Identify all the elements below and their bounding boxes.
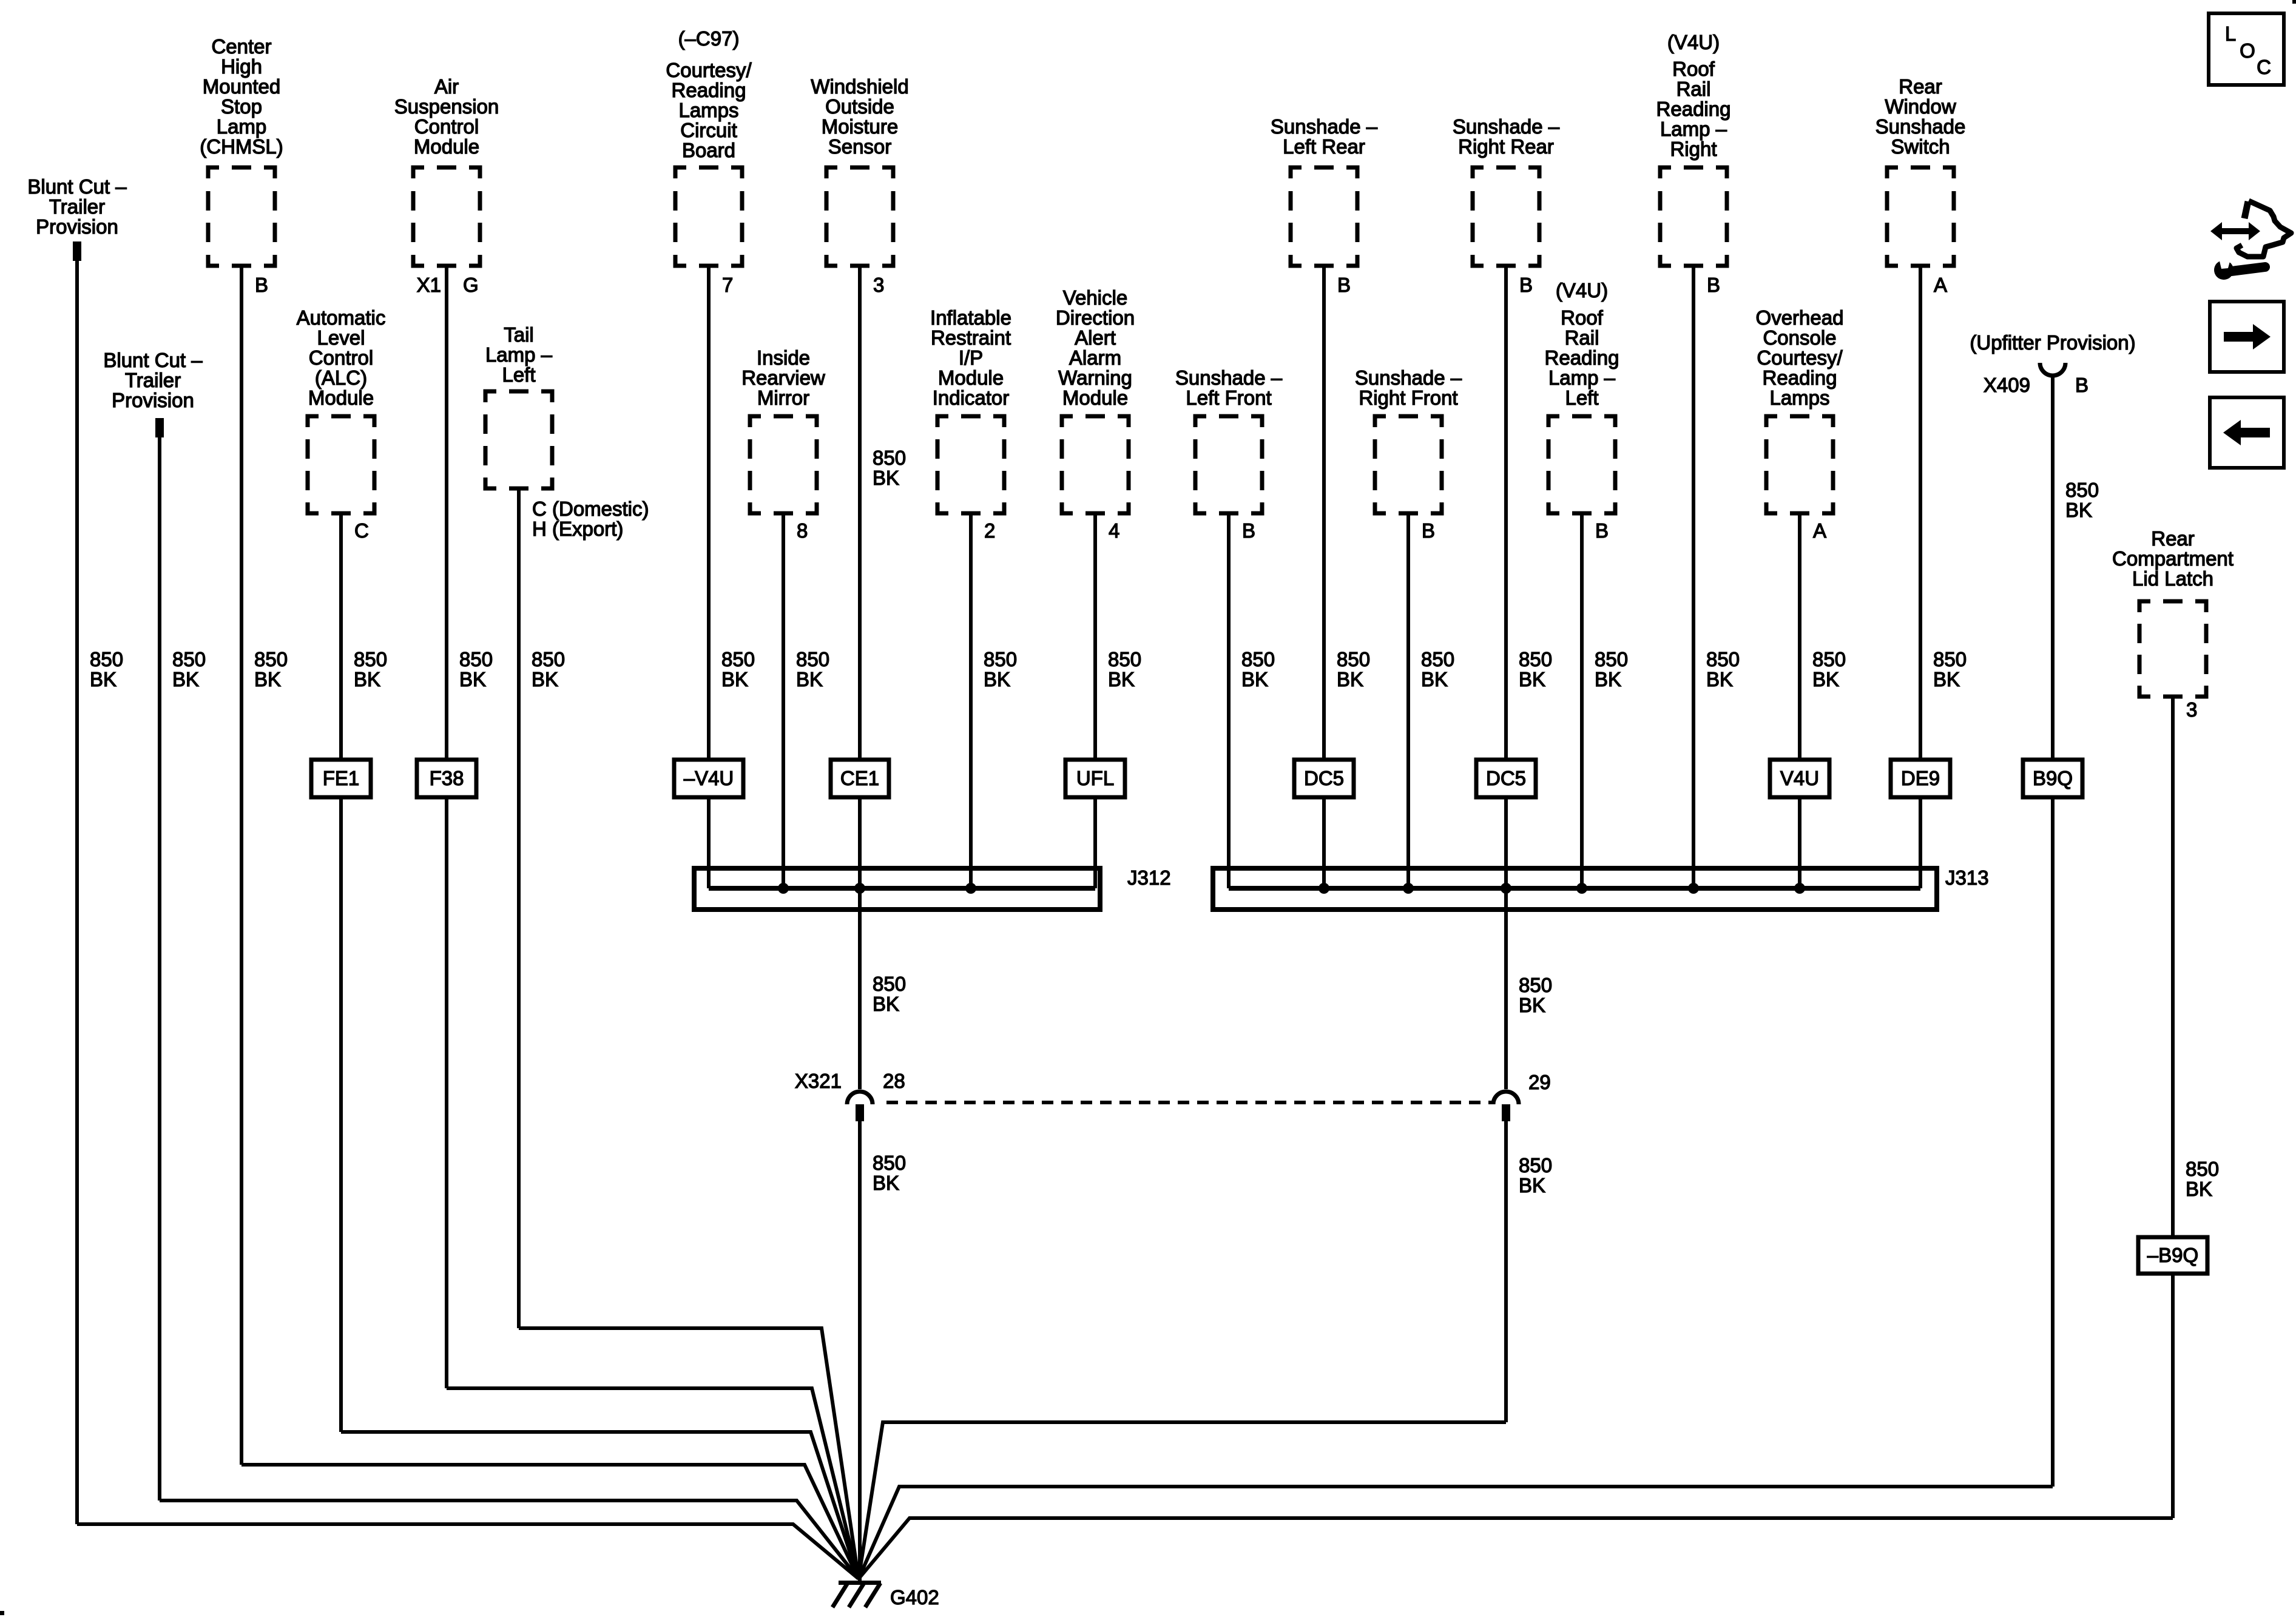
- svg-text:850: 850: [1706, 648, 1740, 670]
- svg-text:Rearview: Rearview: [741, 366, 825, 389]
- svg-text:Level: Level: [317, 326, 365, 349]
- wire sunshade switch down to DE9: [1919, 264, 1922, 760]
- svg-text:Windshield: Windshield: [811, 75, 908, 98]
- svg-text:Trailer: Trailer: [125, 369, 181, 391]
- wire run connector-29 to ground: [859, 1422, 1506, 1579]
- wire vehicle direction down to UFL: [1093, 511, 1097, 760]
- svg-text:(CHMSL): (CHMSL): [200, 135, 283, 158]
- svg-text:BK: BK: [873, 467, 899, 489]
- svg-text:L: L: [2225, 22, 2236, 45]
- label Center High Mounted Stop Lamp (CHMSL): [200, 35, 283, 158]
- svg-text:Lid Latch: Lid Latch: [2132, 567, 2213, 590]
- svg-text:BK: BK: [1241, 668, 1268, 690]
- junction dot (sunshade RF): [1403, 883, 1414, 894]
- junction dot (moisture sensor): [854, 883, 865, 894]
- svg-text:(ALC): (ALC): [315, 366, 367, 389]
- svg-text:Provision: Provision: [112, 389, 194, 411]
- svg-text:Overhead: Overhead: [1756, 306, 1844, 329]
- svg-text:Restraint: Restraint: [931, 326, 1011, 349]
- wire label 850 BK (inflatable restraint): [984, 648, 1017, 690]
- wire label 850 BK (sunshade switch): [1933, 648, 1967, 690]
- option box -B9Q: [2138, 1237, 2207, 1274]
- svg-text:Reading: Reading: [1763, 366, 1837, 389]
- svg-text:850: 850: [873, 973, 906, 995]
- svg-text:BK: BK: [1337, 668, 1363, 690]
- pin B (sunshade right rear): [1519, 274, 1533, 296]
- option box V4U: [1770, 760, 1829, 797]
- option box B9Q: [2023, 760, 2082, 797]
- svg-text:Air: Air: [434, 75, 459, 98]
- svg-text:BK: BK: [984, 668, 1010, 690]
- component ALC Module (dashed box): [308, 416, 374, 513]
- wire label 850 BK (air suspension): [459, 648, 493, 690]
- wire ALC down to FE1: [339, 511, 343, 760]
- svg-text:Automatic: Automatic: [297, 306, 386, 329]
- wire label 850 BK (sunshade RF): [1421, 648, 1454, 690]
- svg-text:Lamp: Lamp: [217, 115, 267, 138]
- svg-text:Right Rear: Right Rear: [1458, 135, 1554, 158]
- svg-text:(V4U): (V4U): [1556, 279, 1608, 302]
- svg-text:29: 29: [1528, 1071, 1551, 1093]
- component Air Suspension Control Module (dashed box): [413, 167, 480, 266]
- svg-text:BK: BK: [1812, 668, 1839, 690]
- svg-text:X1: X1: [417, 274, 441, 296]
- svg-text:B: B: [1707, 274, 1720, 296]
- pin C (Domestic) / H (Export): [532, 498, 649, 540]
- wire moisture sensor down to CE1: [858, 264, 862, 760]
- svg-text:Sunshade: Sunshade: [1876, 115, 1966, 138]
- svg-text:Left Front: Left Front: [1186, 387, 1271, 409]
- component Roof Rail Reading Lamp Right (dashed box): [1660, 167, 1727, 266]
- svg-text:(Upfitter Provision): (Upfitter Provision): [1970, 331, 2135, 354]
- wire F38 down: [445, 797, 448, 1388]
- svg-text:850: 850: [2186, 1158, 2219, 1180]
- svg-text:BK: BK: [873, 993, 899, 1015]
- wire sunshade left front to J313: [1227, 511, 1231, 888]
- wire roof rail left to J313: [1580, 511, 1584, 888]
- svg-text:Mirror: Mirror: [757, 387, 809, 409]
- wire roof rail right to J313: [1692, 264, 1695, 888]
- svg-text:Vehicle: Vehicle: [1063, 286, 1127, 309]
- wire run ALC to ground: [341, 1432, 859, 1579]
- component Rear Window Sunshade Switch (dashed box): [1887, 167, 1954, 266]
- pin A (sunshade switch): [1934, 274, 1947, 296]
- svg-text:BK: BK: [1108, 668, 1135, 690]
- svg-text:Courtesy/: Courtesy/: [1757, 346, 1843, 369]
- svg-text:O: O: [2240, 39, 2255, 62]
- svg-text:A: A: [1813, 519, 1826, 542]
- svg-text:850: 850: [1595, 648, 1628, 670]
- svg-text:Lamps: Lamps: [1769, 387, 1829, 409]
- wire label 850 BK (upfitter): [2065, 479, 2099, 521]
- svg-text:J313: J313: [1945, 866, 1989, 889]
- svg-text:G402: G402: [890, 1586, 939, 1609]
- svg-text:Outside: Outside: [825, 95, 894, 118]
- component Sunshade Left Front (dashed box): [1195, 416, 1262, 513]
- svg-text:F38: F38: [430, 767, 464, 789]
- component Sunshade Right Front (dashed box): [1375, 416, 1442, 513]
- wire label 850 BK (J312 exit upper): [873, 973, 906, 1015]
- legend body-repair icon (double arrow): [2210, 222, 2260, 240]
- svg-text:Sunshade –: Sunshade –: [1271, 115, 1378, 138]
- svg-text:850: 850: [1519, 974, 1552, 996]
- junction dot (sunshade RR): [1501, 883, 1511, 894]
- svg-text:850: 850: [532, 648, 565, 670]
- corner mark bottom-left: [0, 1611, 4, 1615]
- wire label 850 BK (CHMSL): [254, 648, 288, 690]
- svg-text:DC5: DC5: [1486, 767, 1526, 789]
- svg-text:Rear: Rear: [1899, 75, 1942, 98]
- svg-text:28: 28: [883, 1070, 905, 1092]
- in-line connector dashed link 28-29: [886, 1101, 1491, 1104]
- svg-text:BK: BK: [254, 668, 281, 690]
- svg-text:850: 850: [254, 648, 288, 670]
- wire J312 to connector 28: [858, 888, 862, 1089]
- svg-text:Courtesy/: Courtesy/: [666, 59, 752, 81]
- wire sunshade left rear down to DC5: [1322, 264, 1326, 760]
- svg-text:Stop: Stop: [221, 95, 262, 118]
- wire overhead console down to V4U: [1798, 511, 1801, 760]
- blunt-cut terminal (second trailer provision): [155, 418, 164, 437]
- svg-text:Tail: Tail: [504, 323, 534, 346]
- svg-text:850: 850: [90, 648, 123, 670]
- svg-text:850: 850: [873, 1152, 906, 1174]
- wire label 850 BK (blunt cut 2): [172, 648, 206, 690]
- legend LOC box: [2209, 13, 2284, 85]
- label (V4U) Roof Rail Reading Lamp - Left: [1545, 279, 1619, 409]
- wire courtesy down to -V4U: [707, 264, 711, 760]
- svg-text:B: B: [2075, 374, 2088, 396]
- svg-text:BK: BK: [2065, 499, 2092, 521]
- label (V4U) Roof Rail Reading Lamp - Right: [1656, 31, 1731, 160]
- svg-text:BK: BK: [1519, 1174, 1545, 1197]
- svg-text:BK: BK: [90, 668, 116, 690]
- svg-text:B: B: [1242, 519, 1255, 542]
- svg-text:Alert: Alert: [1075, 326, 1116, 349]
- pin X1 / G (air suspension): [417, 274, 479, 296]
- svg-text:Blunt Cut –: Blunt Cut –: [27, 175, 127, 198]
- corner mark top-right: [2292, 0, 2296, 4]
- svg-text:Right Front: Right Front: [1359, 387, 1457, 409]
- svg-text:3: 3: [873, 274, 884, 296]
- svg-text:Switch: Switch: [1891, 135, 1950, 158]
- svg-text:850: 850: [1421, 648, 1454, 670]
- svg-text:Board: Board: [682, 139, 735, 161]
- label Overhead Console Courtesy/Reading Lamps: [1756, 306, 1844, 409]
- junction block J312 (outer): [694, 868, 1100, 910]
- component CHMSL (dashed box): [208, 167, 275, 266]
- label Rear Compartment Lid Latch: [2112, 527, 2234, 590]
- svg-text:V4U: V4U: [1780, 767, 1819, 789]
- svg-text:850: 850: [172, 648, 206, 670]
- wire 29 down: [1504, 1121, 1508, 1422]
- svg-text:Left Rear: Left Rear: [1283, 135, 1365, 158]
- wire run blunt-cut1 to ground: [77, 1524, 859, 1579]
- svg-text:Reading: Reading: [1656, 98, 1731, 120]
- svg-text:BK: BK: [1519, 668, 1545, 690]
- svg-text:BK: BK: [1595, 668, 1621, 690]
- label Automatic Level Control (ALC) Module: [297, 306, 386, 409]
- wire FE1 down: [339, 797, 343, 1432]
- pin 3 (moisture sensor): [873, 274, 884, 296]
- svg-text:4: 4: [1109, 519, 1119, 542]
- svg-text:Sunshade –: Sunshade –: [1453, 115, 1560, 138]
- fuse box F38: [417, 760, 476, 797]
- label J312: [1127, 866, 1171, 889]
- svg-text:Rail: Rail: [1565, 326, 1599, 349]
- junction block J313 (outer): [1213, 868, 1937, 910]
- pin B (sunshade right front): [1422, 519, 1435, 542]
- svg-text:8: 8: [797, 519, 808, 542]
- wire label 850 BK (moisture sensor): [873, 447, 906, 489]
- svg-text:Roof: Roof: [1672, 58, 1715, 80]
- svg-text:Direction: Direction: [1056, 306, 1135, 329]
- wire label 850 BK (J313 exit upper): [1519, 974, 1552, 1016]
- wire DC5 left rear to J313: [1322, 797, 1326, 888]
- svg-text:850: 850: [984, 648, 1017, 670]
- label Sunshade - Left Front: [1175, 366, 1283, 409]
- svg-text:G: G: [463, 274, 479, 296]
- component Windshield Outside Moisture Sensor (dashed box): [826, 167, 893, 266]
- component Rear Compartment Lid Latch (dashed box): [2139, 601, 2206, 697]
- wire label 850 BK (ALC): [354, 648, 387, 690]
- svg-text:A: A: [1934, 274, 1947, 296]
- wire label 850 BK (lid latch): [2186, 1158, 2219, 1200]
- svg-text:B: B: [1519, 274, 1533, 296]
- wire lid latch down to -B9Q: [2171, 695, 2175, 1237]
- wire run tail-lamp to ground: [519, 1328, 859, 1579]
- component Courtesy/Reading Lamps Circuit Board (dashed box): [675, 167, 742, 266]
- svg-text:850: 850: [354, 648, 387, 670]
- component Overhead Console Courtesy/Reading Lamps (dashed box): [1766, 416, 1833, 513]
- label Sunshade - Left Rear: [1271, 115, 1378, 158]
- svg-text:BK: BK: [1933, 668, 1960, 690]
- legend body-repair icon (panel outline): [2237, 201, 2291, 257]
- label X321: [795, 1070, 842, 1092]
- label Air Suspension Control Module: [394, 75, 499, 158]
- wire label 850 BK (vehicle direction): [1108, 648, 1141, 690]
- svg-text:C: C: [354, 519, 369, 542]
- svg-text:Control: Control: [309, 346, 373, 369]
- pin C (ALC): [354, 519, 369, 542]
- svg-text:X321: X321: [795, 1070, 842, 1092]
- junction dot (roof rail right): [1688, 883, 1699, 894]
- connector X409 (upfitter): [2040, 363, 2065, 376]
- svg-text:B: B: [1422, 519, 1435, 542]
- svg-text:850: 850: [721, 648, 755, 670]
- svg-text:Window: Window: [1885, 95, 1956, 118]
- svg-text:BK: BK: [873, 1172, 899, 1194]
- legend body-repair icon (wrench): [2214, 255, 2265, 280]
- component Roof Rail Reading Lamp Left (dashed box): [1548, 416, 1615, 513]
- pin 2 (inflatable restraint): [984, 519, 995, 542]
- wire DE9 to J313: [1919, 797, 1922, 888]
- svg-text:High: High: [221, 55, 262, 78]
- svg-text:(V4U): (V4U): [1667, 31, 1720, 53]
- svg-text:Center: Center: [211, 35, 271, 58]
- svg-text:B9Q: B9Q: [2033, 767, 2073, 789]
- connector X321 pin 29: [1493, 1092, 1519, 1121]
- ground G402 symbol: [832, 1581, 881, 1607]
- svg-text:Lamp –: Lamp –: [485, 343, 553, 366]
- wire label 850 BK (roof rail left): [1595, 648, 1628, 690]
- svg-text:Lamps: Lamps: [678, 99, 738, 121]
- svg-text:850: 850: [2065, 479, 2099, 501]
- svg-text:Roof: Roof: [1561, 306, 1604, 329]
- wire V4U to J313: [1798, 797, 1801, 888]
- wire run upfitter to ground: [859, 1487, 2053, 1579]
- wire inflatable restraint to J312: [969, 511, 973, 888]
- svg-text:Suspension: Suspension: [394, 95, 499, 118]
- svg-text:Lamp –: Lamp –: [1548, 366, 1616, 389]
- label G402: [890, 1586, 939, 1609]
- option box DC5 (left rear): [1294, 760, 1354, 797]
- svg-text:850: 850: [1933, 648, 1967, 670]
- legend right-arrow box: [2210, 302, 2284, 372]
- svg-text:Sensor: Sensor: [828, 135, 892, 158]
- label pin 29: [1528, 1071, 1551, 1093]
- junction dot (sunshade LR): [1319, 883, 1329, 894]
- svg-text:850: 850: [796, 648, 829, 670]
- svg-text:B: B: [1337, 274, 1351, 296]
- label Vehicle Direction Alert Alarm Warning Module: [1056, 286, 1135, 409]
- wire X409 down to B9Q: [2051, 376, 2055, 760]
- component Sunshade Right Rear (dashed box): [1473, 167, 1539, 266]
- svg-text:2: 2: [984, 519, 995, 542]
- wire blunt-cut 2 down: [158, 436, 161, 1501]
- component Vehicle Direction Alert Alarm Warning Module (dashed box): [1062, 416, 1129, 513]
- wire DC5 right rear to J313: [1504, 797, 1508, 888]
- label Sunshade - Right Front: [1355, 366, 1462, 409]
- option box -V4U: [674, 760, 743, 797]
- svg-text:CE1: CE1: [840, 767, 879, 789]
- junction J312 bus: [709, 886, 1095, 891]
- svg-text:Module: Module: [938, 366, 1004, 389]
- svg-text:7: 7: [722, 274, 733, 296]
- svg-text:BK: BK: [1519, 994, 1545, 1016]
- pin 7 (courtesy board): [722, 274, 733, 296]
- svg-text:Left: Left: [502, 363, 535, 386]
- junction J313 bus: [1229, 886, 1920, 891]
- junction dot (overhead console): [1794, 883, 1805, 894]
- wire run blunt-cut2 to ground: [160, 1501, 859, 1579]
- wire label 850 BK (28 lower): [873, 1152, 906, 1194]
- svg-text:Sunshade –: Sunshade –: [1175, 366, 1283, 389]
- svg-text:Lamp –: Lamp –: [1660, 118, 1727, 140]
- wire CHMSL down: [240, 264, 243, 1465]
- pin B (roof rail left): [1595, 519, 1609, 542]
- svg-text:BK: BK: [2186, 1178, 2212, 1200]
- wire tail lamp down: [517, 487, 521, 1328]
- svg-text:Warning: Warning: [1058, 366, 1132, 389]
- svg-text:850: 850: [1812, 648, 1846, 670]
- svg-text:850: 850: [1337, 648, 1370, 670]
- svg-text:Moisture: Moisture: [822, 115, 899, 138]
- label Sunshade - Right Rear: [1453, 115, 1560, 158]
- svg-text:850: 850: [1519, 648, 1552, 670]
- wire run lid-latch to ground: [859, 1518, 2173, 1579]
- svg-text:Right: Right: [1670, 138, 1717, 160]
- option box UFL: [1065, 760, 1125, 797]
- wire sunshade right front to J313: [1406, 511, 1410, 888]
- wire B9Q down: [2051, 797, 2055, 1487]
- svg-text:Inflatable: Inflatable: [930, 306, 1011, 329]
- wire 28 to ground: [858, 1121, 862, 1582]
- wire J313 to connector 29: [1504, 888, 1508, 1089]
- svg-text:J312: J312: [1127, 866, 1171, 889]
- component Tail Lamp Left (dashed box): [485, 391, 552, 488]
- pin A (overhead console): [1813, 519, 1826, 542]
- svg-text:850: 850: [1108, 648, 1141, 670]
- svg-text:DE9: DE9: [1901, 767, 1940, 789]
- svg-text:Inside: Inside: [757, 346, 810, 369]
- svg-text:DC5: DC5: [1304, 767, 1344, 789]
- wire mirror to J312: [782, 511, 785, 888]
- svg-text:Rail: Rail: [1676, 78, 1711, 100]
- option box DE9: [1891, 760, 1950, 797]
- svg-text:–B9Q: –B9Q: [2147, 1244, 2198, 1266]
- wire label 850 BK (tail lamp): [532, 648, 565, 690]
- svg-text:Blunt Cut –: Blunt Cut –: [103, 349, 203, 371]
- wire label 850 BK (mirror): [796, 648, 829, 690]
- wire label 850 BK (overhead console): [1812, 648, 1846, 690]
- pin B (sunshade left front): [1242, 519, 1255, 542]
- pin 8 (mirror): [797, 519, 808, 542]
- svg-text:Trailer: Trailer: [49, 195, 105, 218]
- label Blunt Cut - Trailer Provision (left): [27, 175, 127, 238]
- svg-text:Control: Control: [414, 115, 479, 138]
- svg-text:BK: BK: [796, 668, 823, 690]
- wire sunshade right rear down to DC5: [1504, 264, 1508, 760]
- svg-text:Compartment: Compartment: [2112, 547, 2234, 570]
- wire label 850 BK (sunshade RR): [1519, 648, 1552, 690]
- label pin 28: [883, 1070, 905, 1092]
- svg-text:BK: BK: [721, 668, 748, 690]
- label Tail Lamp - Left: [485, 323, 553, 386]
- svg-text:Left: Left: [1565, 387, 1598, 409]
- label Inflatable Restraint I/P Module Indicator: [930, 306, 1011, 409]
- svg-text:Rear: Rear: [2151, 527, 2195, 550]
- svg-text:X409: X409: [1984, 374, 2030, 396]
- svg-text:850: 850: [873, 447, 906, 469]
- svg-text:C: C: [2257, 56, 2271, 78]
- pin B (CHMSL): [255, 274, 268, 296]
- svg-text:B: B: [255, 274, 268, 296]
- pin labels X409 / B: [1984, 374, 2088, 396]
- svg-text:Console: Console: [1763, 326, 1836, 349]
- blunt-cut terminal (left trailer provision): [73, 241, 81, 261]
- svg-text:Reading: Reading: [672, 79, 746, 101]
- svg-text:BK: BK: [532, 668, 558, 690]
- wire -B9Q down: [2171, 1274, 2175, 1518]
- wire run air-suspension to ground: [447, 1388, 859, 1579]
- label Blunt Cut - Trailer Provision (second): [103, 349, 203, 411]
- wire -V4U to J312: [707, 797, 711, 888]
- svg-text:850: 850: [459, 648, 493, 670]
- svg-text:3: 3: [2186, 698, 2197, 721]
- svg-text:Mounted: Mounted: [203, 75, 280, 98]
- svg-text:FE1: FE1: [323, 767, 360, 789]
- junction dot (roof rail left): [1576, 883, 1587, 894]
- svg-text:Module: Module: [1062, 387, 1128, 409]
- wire label 850 BK (roof rail right): [1706, 648, 1740, 690]
- pin 4 (vehicle direction module): [1109, 519, 1119, 542]
- svg-text:Indicator: Indicator: [933, 387, 1010, 409]
- svg-text:H (Export): H (Export): [532, 518, 623, 540]
- wire label 850 BK (sunshade LF): [1241, 648, 1275, 690]
- component Sunshade Left Rear (dashed box): [1291, 167, 1357, 266]
- label J313: [1945, 866, 1989, 889]
